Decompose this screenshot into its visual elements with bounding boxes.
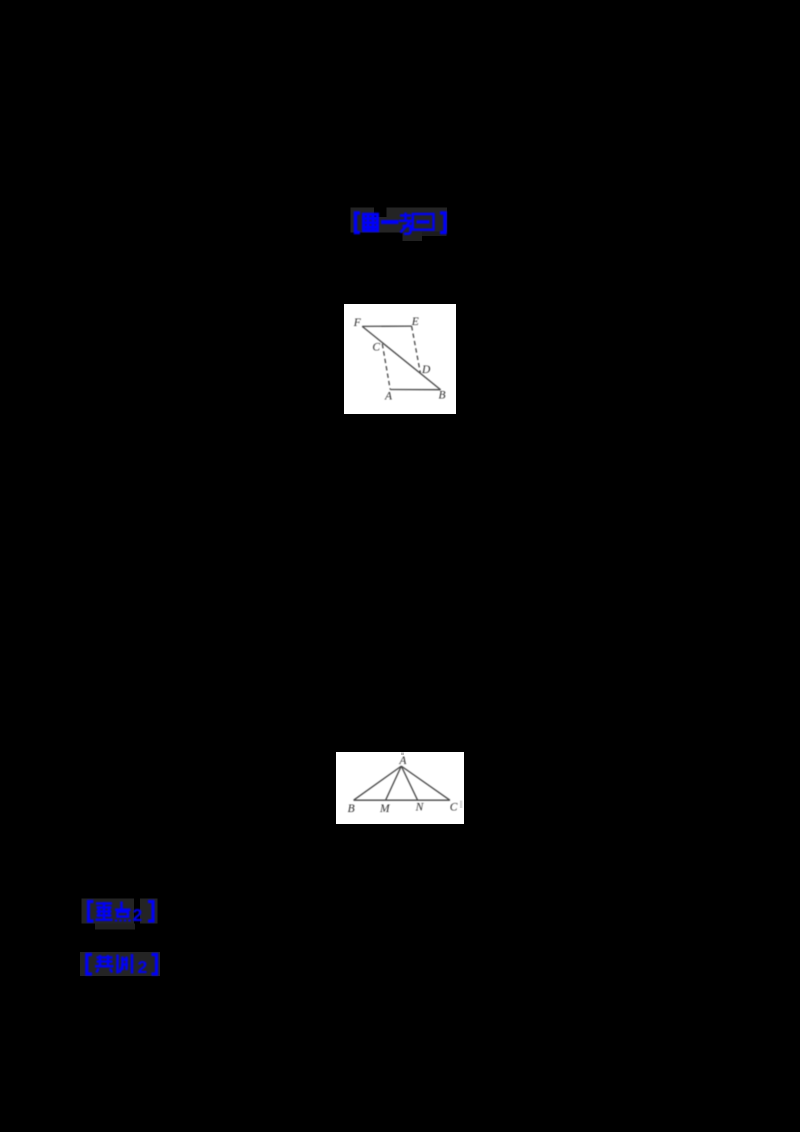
line F-E	[362, 325, 411, 327]
blue label run 2	[89, 902, 154, 925]
figure 1 white box	[344, 304, 456, 414]
left bracket	[89, 902, 94, 922]
figure 2 small gray artifacts	[401, 753, 404, 756]
shading gray block for label 3	[80, 952, 160, 976]
em dash	[381, 220, 399, 224]
title shading gray block	[351, 208, 448, 242]
figure 2 white box	[336, 752, 464, 824]
svg-text:C: C	[450, 802, 458, 814]
dense char dian	[115, 902, 131, 922]
svg-text:M: M	[379, 803, 391, 815]
dashed C-A	[382, 344, 390, 390]
dense char zhong	[96, 902, 113, 920]
svg-text:F: F	[353, 317, 362, 329]
svg-text:2: 2	[133, 905, 143, 925]
glyph like (二)	[413, 214, 434, 230]
dashed E-D	[412, 326, 421, 373]
svg-text:C: C	[372, 341, 380, 353]
figure 2 labels	[348, 755, 458, 815]
figure 1 line art	[362, 326, 440, 390]
blue label run 3	[87, 954, 157, 977]
figure 1 labels	[353, 316, 446, 403]
line A-B	[390, 389, 440, 391]
svg-text:B: B	[348, 803, 355, 815]
title blue text run	[356, 213, 446, 234]
line A-M	[386, 766, 402, 800]
line B-C	[354, 799, 450, 801]
shading gray block for label 2	[82, 899, 158, 930]
dense char 2 with descender	[399, 213, 412, 234]
line A-B	[354, 766, 402, 800]
left lenticular bracket	[356, 213, 361, 233]
right bracket	[148, 902, 153, 922]
svg-text:N: N	[415, 802, 425, 814]
svg-text:2: 2	[138, 957, 148, 977]
line A-N	[401, 766, 417, 800]
svg-text:A: A	[384, 391, 393, 403]
right bracket	[152, 955, 157, 975]
svg-text:B: B	[438, 389, 445, 401]
svg-text:A: A	[398, 755, 407, 767]
left bracket	[87, 955, 92, 975]
line A-C	[401, 766, 450, 800]
figure 2 line art	[354, 766, 450, 800]
line F-B diagonal	[362, 326, 440, 389]
svg-text:E: E	[411, 316, 419, 328]
svg-text:D: D	[421, 364, 431, 376]
dense char dian (canon)	[95, 955, 114, 973]
dense char li (example)	[118, 954, 133, 974]
right lenticular bracket	[440, 213, 445, 233]
dense char 1	[362, 214, 379, 232]
